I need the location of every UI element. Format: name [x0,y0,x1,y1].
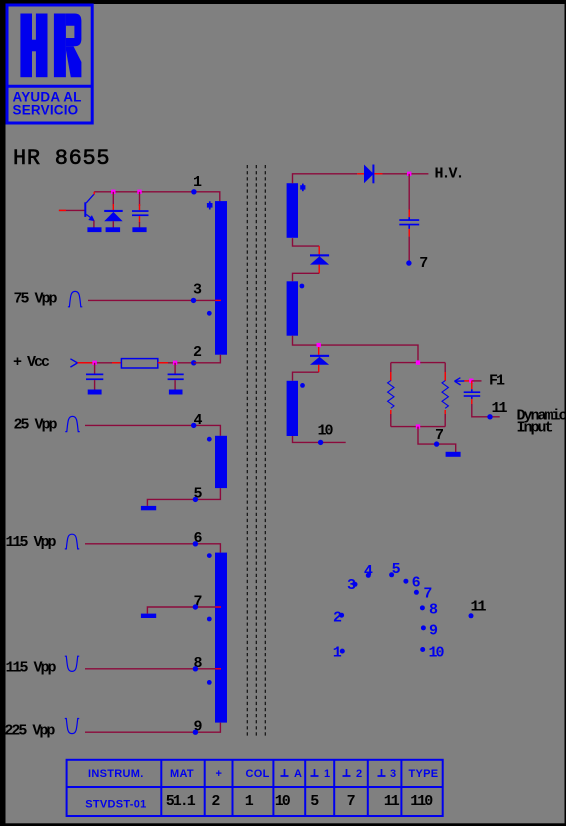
pin 10 dot [318,440,323,445]
wire: red link to wiper arrow [464,380,471,382]
wire: cap to pin 7 [408,237,410,264]
wire: pin 2 to winding bottom [194,355,221,363]
polarity dot winding P2 [207,437,212,442]
winding P3 [215,553,227,723]
header perp 3 [378,768,397,780]
svg-text:HR 8655: HR 8655 [13,146,110,171]
header perp 1 [311,768,331,780]
junction node bottom rail [416,424,420,428]
polarity dot winding S2 [300,284,305,289]
pinout pin 2 [333,610,344,627]
junction node (diode branch) [111,190,115,194]
winding P1 [215,201,227,355]
polarity dot winding P1 [207,311,212,316]
pin 2 dot [191,360,196,365]
pin 8 dot [193,666,198,671]
svg-text:11: 11 [471,598,487,615]
wire: bottom rail to pin 7 and ground [418,427,456,453]
svg-text:10: 10 [318,423,334,440]
svg-text:10: 10 [429,645,445,662]
wire: cap branch [139,192,141,206]
polarity dot winding P3 low [207,680,212,685]
winding P2 [215,436,227,488]
letter H [20,14,47,78]
polarity dot winding S3 [300,383,305,388]
pinout pin 1 [333,645,345,662]
svg-text:11: 11 [384,793,400,810]
svg-text:25 Vpp: 25 Vpp [14,417,58,434]
ground at divider [446,452,461,457]
svg-text:7: 7 [435,427,443,444]
damper diode D1 [104,210,123,221]
svg-text:7: 7 [419,255,427,272]
svg-text:+ Vcc: + Vcc [13,354,50,371]
ground under C1 [132,227,146,232]
star marker winding P1 [207,201,213,209]
svg-text:225 Vpp: 225 Vpp [4,723,55,740]
resistor R2 (left) [388,363,394,427]
junction node F1 [469,379,473,383]
letter R [54,14,82,78]
svg-text:7: 7 [347,793,355,810]
svg-text:3: 3 [390,768,396,780]
capacitor C3 [168,363,184,390]
wire: diode to ground [112,221,114,227]
svg-text:MAT: MAT [170,768,194,780]
star marker winding S1 [300,184,305,192]
capacitor C4 [399,217,419,229]
pin 4 dot [191,423,196,428]
ground at pin 7 [141,614,156,618]
pin 5 dot [193,497,198,502]
wire: D5 to winding S3 top [293,372,319,381]
junction node (C3 branch) [173,361,177,365]
wire: top rail pin1 [94,192,220,202]
resistor R3 (right) [442,363,448,427]
wire: after resistor [158,362,194,364]
wire: D5 branch [318,347,320,355]
wiper arrow [455,378,465,385]
svg-text:H.V.: H.V. [435,165,463,182]
focus divider network: bottom rail [391,426,445,428]
wire: pin 8 tap [85,668,215,670]
svg-text:A: A [294,768,302,780]
svg-text:Input: Input [517,420,553,437]
capacitor C2 [86,363,103,390]
junction node HV [407,172,411,176]
waveform pulse up [65,534,79,549]
transformer core (3 dashed lines) [247,165,265,738]
pinout pin 5 [389,561,401,578]
HR logo box [7,5,92,123]
ground under D1 [106,227,121,232]
pin 11 dot [487,414,492,419]
capacitor C1 [132,210,149,216]
junction node (cap branch) [137,190,141,194]
pinout pin 7 [414,586,432,603]
wire: F1 stub [472,380,482,382]
ground under C3 [169,390,183,395]
diode D5 [310,355,329,365]
waveform pulse down [65,719,79,734]
pinout pin 8 [420,602,438,619]
wire: ground to pin 7 tap [147,607,215,614]
header perp 2 [343,768,363,780]
svg-text:STVDST-01: STVDST-01 [85,799,146,811]
wire: Vcc rail [78,362,122,364]
junction node top rail [416,360,420,364]
wire: pin 3 tap [88,299,215,301]
wire: diode to H.V. [374,173,428,175]
waveform pulse down [65,656,79,671]
svg-text:COL: COL [246,768,270,780]
wire: to capacitor C5 [471,381,473,389]
svg-text:115 Vpp: 115 Vpp [6,660,57,677]
svg-text:7: 7 [423,586,431,603]
svg-text:2: 2 [356,768,362,780]
svg-text:11: 11 [492,400,508,417]
ground under C2 [88,390,102,395]
wire: pin 6 to winding P3 top [85,544,220,553]
diode D4 [310,254,329,264]
pin 9 dot [193,730,198,735]
Vcc input chevron [70,359,77,367]
transistor Q1 [59,192,95,228]
svg-text:10: 10 [275,793,291,810]
resistor R1 [121,359,157,368]
svg-text:51.1: 51.1 [166,793,196,810]
junction node (C2 branch) [92,361,96,365]
svg-text:75 Vpp: 75 Vpp [14,291,58,308]
svg-text:TYPE: TYPE [409,768,439,780]
wire: winding P3 bottom to pin 9 [85,723,220,733]
wire: winding P2 bottom to pin 5 and ground [147,488,220,506]
wire: winding S1 top to HV diode [293,174,358,184]
polarity dot winding P3 top [207,553,212,558]
table row divider [67,786,443,788]
svg-text:INSTRUM.: INSTRUM. [88,768,144,780]
svg-text:+: + [216,768,223,780]
pin 7 dot (HV return) [406,260,411,265]
wire: pin 4 to winding P2 top [85,425,220,435]
capacitor C5 [464,389,481,399]
table column lines [160,760,162,816]
winding S3 [287,381,298,436]
pin 7 dot [193,604,198,609]
pinout pin 4 [364,563,373,580]
waveform pulse up [68,291,82,306]
pin 3 dot [191,298,196,303]
ground at pin 5 [141,506,156,510]
pinout pin 10 [420,645,444,662]
svg-text:115 Vpp: 115 Vpp [6,534,57,551]
wire: S2 bottom rail [293,336,419,363]
pinout pin 9 [421,622,438,639]
winding S2 [287,281,298,335]
table frame [67,760,443,816]
polarity dot winding P3 mid [207,617,212,622]
pinout pin 11 [469,598,487,618]
focus divider network: top rail [391,362,445,364]
header perp A [281,768,303,780]
pin 1 dot [191,189,196,194]
ground under Q1 [87,227,101,232]
wire: S3 bottom to pin 10 [293,436,346,442]
svg-text:1: 1 [324,768,330,780]
wire: diode branch [112,192,114,206]
svg-text:F1: F1 [489,373,505,390]
svg-text:SERVICIO: SERVICIO [13,103,79,118]
wire: cap to ground [139,216,141,222]
pin 7 dot (ground) [434,441,439,446]
pin 6 dot [193,541,198,546]
junction node (D5 branch) [317,343,321,347]
wire: C5 to pin 11 [472,404,500,417]
pinout pin 3 [347,577,358,594]
winding S1 [287,183,298,238]
wire: S1 bottom to diode D4 [293,238,320,246]
pinout pin 6 [403,575,420,592]
wire: D4 to winding S2 top [293,273,320,281]
wire: HV cap branch [408,174,410,212]
waveform pulse up [65,416,79,431]
HV rectifier diode D3 [364,165,374,184]
svg-text:110: 110 [410,793,433,810]
